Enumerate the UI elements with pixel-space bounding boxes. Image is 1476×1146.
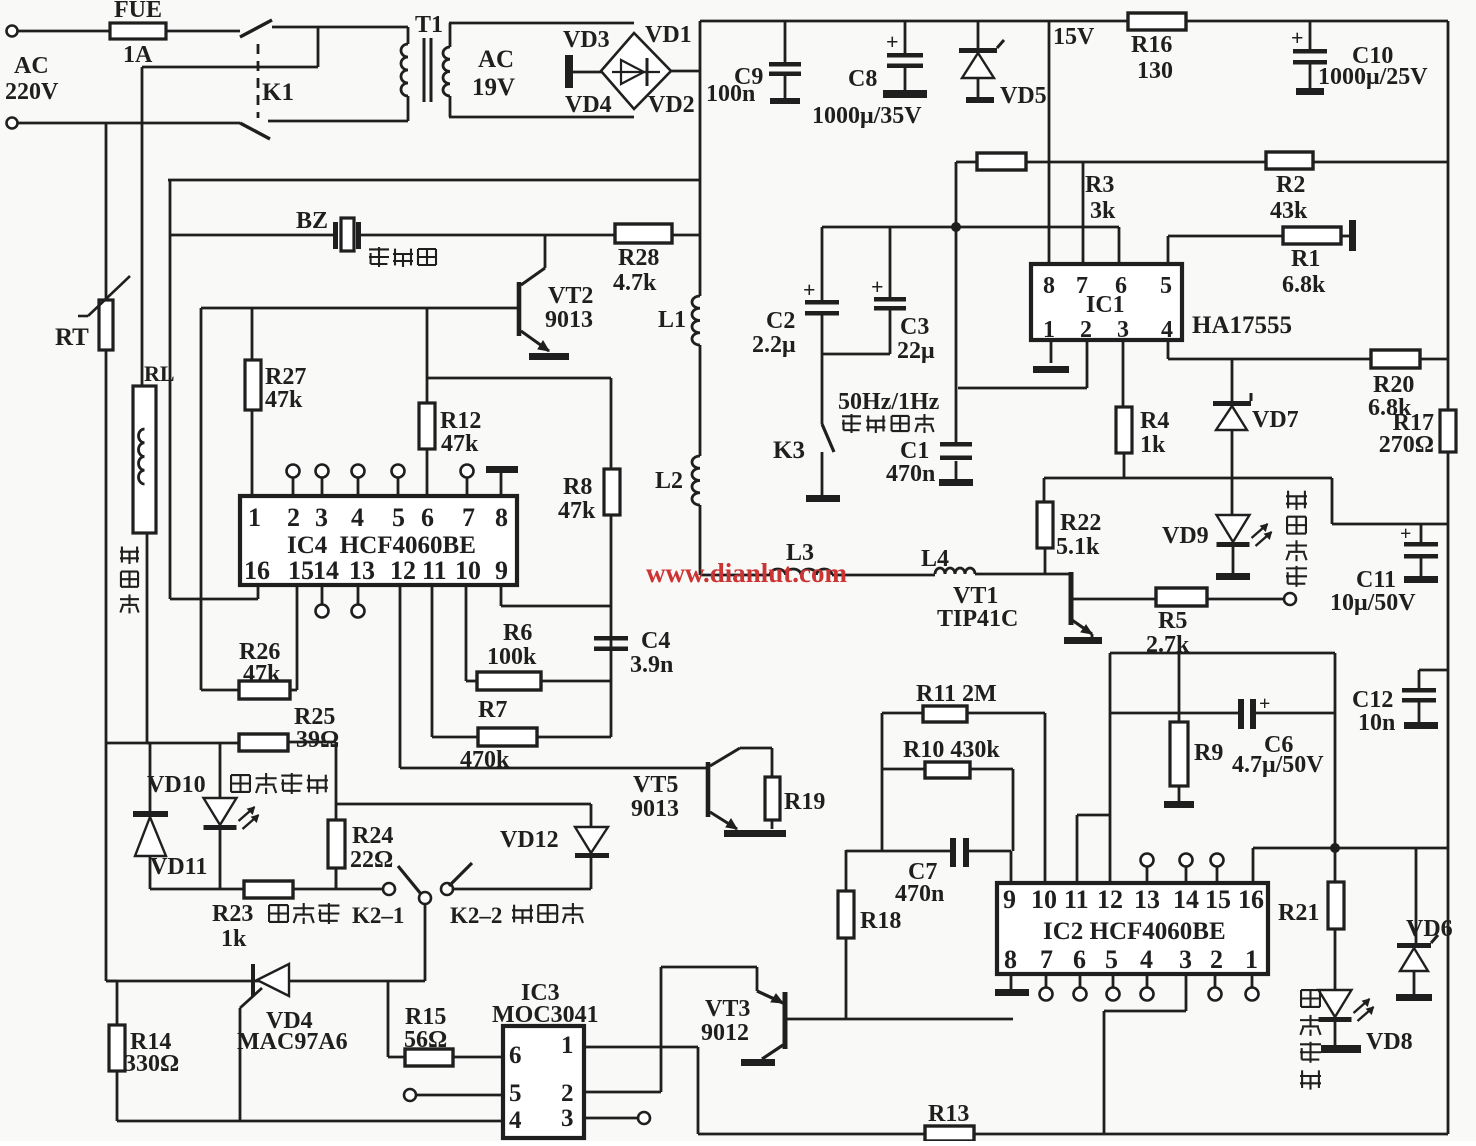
svg-text:15: 15 [288,556,314,585]
svg-text:R6: R6 [503,620,532,646]
svg-text:6: 6 [1073,945,1086,974]
svg-text:L1: L1 [658,307,686,333]
svg-text:VD6: VD6 [1406,916,1453,942]
svg-text:MAC97A6: MAC97A6 [237,1029,348,1055]
svg-text:470n: 470n [895,881,944,907]
svg-text:43k: 43k [1270,198,1308,224]
svg-text:BZ: BZ [296,208,328,234]
svg-text:VD9: VD9 [1162,523,1209,549]
svg-text:+: + [1400,523,1411,545]
svg-text:2: 2 [1080,317,1092,343]
svg-text:1A: 1A [123,42,153,68]
svg-text:R19: R19 [784,789,825,815]
svg-text:50Hz/1Hz: 50Hz/1Hz [838,389,940,415]
svg-text:R21: R21 [1278,900,1319,926]
svg-text:R10 430k: R10 430k [903,737,1000,763]
svg-text:6: 6 [509,1042,522,1069]
svg-text:K2–2: K2–2 [450,903,502,928]
svg-text:R8: R8 [563,474,592,500]
svg-text:VD2: VD2 [648,92,695,118]
svg-text:FUE: FUE [114,0,162,23]
svg-text:56Ω: 56Ω [404,1027,447,1053]
svg-text:7: 7 [462,503,475,532]
svg-text:9012: 9012 [701,1020,749,1046]
svg-text:C4: C4 [641,628,670,654]
svg-text:C2: C2 [766,308,795,334]
svg-text:3: 3 [1117,317,1129,343]
svg-text:12: 12 [390,556,416,585]
svg-text:11: 11 [422,556,447,585]
svg-text:16: 16 [244,556,270,585]
svg-text:9013: 9013 [545,307,593,333]
svg-text:IC2 HCF4060BE: IC2 HCF4060BE [1043,918,1226,945]
svg-text:VT2: VT2 [548,283,593,309]
svg-text:4: 4 [1140,945,1153,974]
svg-text:5: 5 [1105,945,1118,974]
svg-text:13: 13 [1134,885,1160,914]
svg-text:TIP41C: TIP41C [937,606,1018,632]
svg-text:15V: 15V [1053,24,1095,50]
svg-text:47k: 47k [441,431,479,457]
svg-text:R16: R16 [1131,32,1172,58]
svg-text:3: 3 [315,503,328,532]
svg-text:R18: R18 [860,908,901,934]
svg-text:K1: K1 [262,79,294,106]
svg-text:47k: 47k [558,498,596,524]
svg-text:12: 12 [1097,885,1123,914]
svg-text:2: 2 [287,503,300,532]
svg-text:R24: R24 [352,823,393,849]
svg-text:8: 8 [1004,945,1017,974]
svg-text:C3: C3 [900,314,929,340]
svg-text:R7: R7 [478,697,507,723]
svg-text:470n: 470n [886,461,935,487]
svg-text:VD7: VD7 [1252,407,1299,433]
svg-text:22μ: 22μ [897,338,935,364]
svg-text:6.8k: 6.8k [1282,272,1326,298]
svg-text:AC: AC [478,46,514,73]
svg-text:IC1: IC1 [1086,292,1125,318]
svg-text:4: 4 [509,1107,522,1134]
svg-text:+: + [871,274,884,299]
svg-text:K3: K3 [773,437,805,464]
svg-text:C8: C8 [848,66,877,92]
svg-text:R9: R9 [1194,740,1223,766]
svg-text:8: 8 [495,503,508,532]
svg-text:R3: R3 [1085,172,1114,198]
svg-text:5.1k: 5.1k [1056,534,1100,560]
svg-text:9: 9 [495,556,508,585]
svg-text:3: 3 [1179,945,1192,974]
svg-text:VD11: VD11 [150,854,207,880]
svg-text:2: 2 [1210,945,1223,974]
svg-text:4.7k: 4.7k [613,270,657,296]
svg-text:330Ω: 330Ω [124,1051,179,1077]
svg-text:1000μ/25V: 1000μ/25V [1318,64,1428,90]
svg-text:10μ/50V: 10μ/50V [1330,590,1416,616]
svg-text:10: 10 [455,556,481,585]
svg-text:1: 1 [1043,317,1055,343]
svg-text:R13: R13 [928,1101,969,1127]
svg-text:4: 4 [351,503,364,532]
svg-text:47k: 47k [265,387,303,413]
svg-text:1: 1 [1245,945,1258,974]
svg-text:6: 6 [421,503,434,532]
svg-text:MOC3041: MOC3041 [492,1002,599,1028]
svg-text:4: 4 [1161,317,1173,343]
svg-text:15: 15 [1205,885,1231,914]
svg-text:22Ω: 22Ω [350,847,393,873]
svg-text:R11 2M: R11 2M [916,681,997,707]
svg-text:13: 13 [349,556,375,585]
svg-text:4.7μ/50V: 4.7μ/50V [1232,752,1324,778]
svg-text:1: 1 [248,503,261,532]
svg-text:8: 8 [1043,273,1055,299]
svg-text:19V: 19V [472,74,515,101]
svg-text:VT3: VT3 [705,996,750,1022]
svg-text:RL: RL [144,361,175,386]
svg-text:3.9n: 3.9n [630,652,673,678]
svg-text:VD3: VD3 [563,27,610,53]
svg-text:9: 9 [1003,885,1016,914]
svg-text:5: 5 [509,1080,522,1107]
svg-text:R22: R22 [1060,510,1101,536]
svg-text:R4: R4 [1140,408,1169,434]
svg-text:2: 2 [561,1080,574,1107]
svg-text:VD8: VD8 [1366,1029,1413,1055]
svg-text:5: 5 [392,503,405,532]
svg-text:VD4: VD4 [565,92,612,118]
svg-text:1000μ/35V: 1000μ/35V [812,103,922,129]
svg-text:1k: 1k [1140,432,1166,458]
svg-text:2.2μ: 2.2μ [752,332,796,358]
svg-text:10: 10 [1031,885,1057,914]
svg-text:1: 1 [561,1032,574,1059]
svg-text:220V: 220V [5,79,59,105]
svg-text:3k: 3k [1090,198,1116,224]
svg-text:K2–1: K2–1 [352,903,404,928]
svg-text:14: 14 [313,556,339,585]
svg-text:130: 130 [1137,58,1173,84]
svg-text:100n: 100n [706,81,755,107]
svg-text:100k: 100k [487,644,537,670]
svg-text:47k: 47k [243,661,281,687]
svg-text:www.dianlut.com: www.dianlut.com [646,558,848,588]
svg-text:T1: T1 [415,12,443,38]
svg-text:10n: 10n [1358,710,1395,736]
svg-text:VT5: VT5 [633,772,678,798]
svg-text:HA17555: HA17555 [1192,312,1292,339]
svg-text:9013: 9013 [631,796,679,822]
svg-text:R23: R23 [212,901,253,927]
svg-text:3: 3 [561,1105,574,1132]
svg-text:+: + [1291,25,1304,50]
svg-text:11: 11 [1064,885,1089,914]
svg-text:1k: 1k [221,926,247,952]
svg-text:+: + [803,277,816,302]
svg-text:R2: R2 [1276,172,1305,198]
svg-text:R1: R1 [1291,246,1320,272]
svg-text:14: 14 [1173,885,1199,914]
svg-text:VD5: VD5 [1000,83,1047,109]
svg-text:IC4 HCF4060BE: IC4 HCF4060BE [287,532,476,559]
svg-text:RT: RT [55,324,89,351]
svg-text:R28: R28 [618,245,659,271]
svg-text:VD12: VD12 [500,827,559,853]
svg-text:VD10: VD10 [147,772,206,798]
svg-text:270Ω: 270Ω [1379,432,1434,458]
svg-text:L2: L2 [655,468,683,494]
svg-text:L4: L4 [921,546,949,572]
svg-text:AC: AC [14,53,49,79]
svg-text:VD1: VD1 [645,22,692,48]
svg-text:+: + [886,29,899,54]
svg-text:R5: R5 [1158,608,1187,634]
svg-text:39Ω: 39Ω [296,727,339,753]
svg-text:16: 16 [1238,885,1264,914]
svg-text:7: 7 [1040,945,1053,974]
svg-text:5: 5 [1160,273,1172,299]
